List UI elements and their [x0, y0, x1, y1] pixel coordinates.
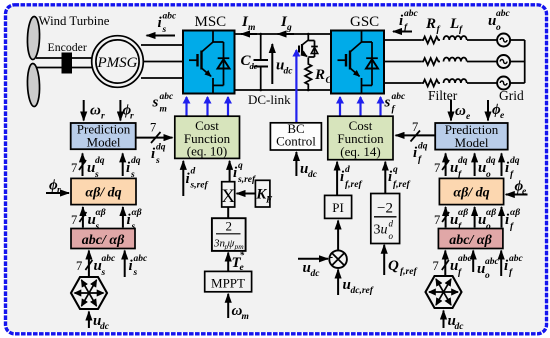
arrow i_f_ab [502, 207, 521, 232]
wire fraction to X [227, 207, 229, 218]
resistor R_f phase c [422, 80, 440, 87]
block multiplier X [221, 182, 235, 207]
arrow K_F to X [237, 193, 256, 195]
wire PMSG to MSC phase c [141, 77, 183, 79]
arrow u_dcref into sum [338, 270, 374, 297]
svg-text:dq: dq [458, 156, 468, 166]
svg-text:s: s [155, 156, 160, 166]
svg-text:abc: abc [404, 9, 419, 19]
arrow Q_fref [384, 245, 417, 277]
svg-text:dc,ref: dc,ref [351, 286, 374, 296]
svg-text:PI: PI [332, 200, 344, 215]
current arrow I_g [278, 14, 295, 34]
shaft [36, 58, 93, 68]
svg-text:abc: abc [163, 12, 178, 22]
svg-text:r: r [130, 112, 134, 122]
svg-text:Model: Model [455, 135, 489, 150]
gate arrows s_m to MSC [187, 97, 229, 116]
svg-text:dq: dq [510, 156, 520, 166]
block torque gain fraction [212, 218, 246, 251]
svg-text:7: 7 [150, 121, 156, 135]
block K_F [255, 180, 273, 207]
svg-text:abc: abc [458, 254, 473, 264]
source grid phase c [497, 77, 510, 90]
svg-text:7: 7 [412, 120, 418, 134]
svg-text:R: R [314, 67, 325, 83]
label L_f [449, 16, 463, 35]
svg-text:ω: ω [455, 103, 466, 119]
arrow u_s_abc [76, 251, 116, 279]
wire sum to PI [337, 221, 339, 251]
svg-text:q: q [393, 165, 398, 175]
arrow i_sref_d [183, 161, 208, 196]
svg-text:αβ: αβ [486, 208, 496, 218]
wire grid bus [510, 40, 525, 83]
sum junction [329, 249, 347, 269]
label s_m_abc [152, 92, 175, 115]
svg-text:m: m [242, 312, 249, 322]
current arrow i_f_abc [393, 9, 419, 33]
svg-text:dc: dc [284, 67, 294, 77]
wire dc-link top rail [235, 33, 332, 35]
arrow u_dc into right hexagon [444, 311, 465, 333]
block PI [325, 195, 352, 218]
svg-text:3: 3 [374, 223, 381, 238]
arrow i_fref_d [337, 162, 362, 195]
vector hexagon left [71, 277, 107, 309]
wire prediction right to cost eq14 [396, 120, 436, 142]
label R_f [425, 16, 441, 35]
inductor L_f phase a [444, 36, 467, 40]
arrow i_sref_q [230, 161, 256, 185]
wire filter to sources [467, 40, 497, 83]
svg-text:Wind Turbine: Wind Turbine [39, 14, 110, 28]
block ab/dq right [439, 178, 503, 204]
svg-text:(eq. 10): (eq. 10) [187, 144, 227, 159]
svg-text:F: F [265, 196, 273, 206]
svg-text:ψ: ψ [228, 238, 235, 250]
arrow i_s_abc in [125, 251, 148, 279]
svg-text:dc: dc [308, 170, 318, 180]
label u_o_abc [488, 9, 511, 33]
svg-text:f,ref: f,ref [393, 180, 410, 190]
svg-text:dc: dc [250, 61, 258, 71]
svg-text:f,ref: f,ref [400, 267, 417, 277]
generator PMSG [92, 36, 144, 88]
svg-text:L: L [449, 16, 459, 32]
svg-text:PMSG: PMSG [97, 55, 138, 71]
block BC Control [270, 121, 321, 150]
inductor L_f phase b [444, 58, 467, 62]
svg-text:u: u [381, 223, 388, 238]
svg-text:dq: dq [156, 143, 166, 153]
arrow omega_r [84, 100, 105, 122]
svg-text:αβ: αβ [510, 208, 520, 218]
svg-text:s: s [152, 95, 159, 111]
arrow omega_e [451, 100, 471, 122]
block MPPT [205, 271, 252, 291]
svg-text:Filter: Filter [428, 88, 458, 103]
svg-text:7: 7 [71, 213, 77, 227]
svg-text:q: q [238, 161, 243, 171]
svg-text:7: 7 [434, 161, 440, 175]
svg-text:dq: dq [486, 156, 496, 166]
arrow u_s_ab [71, 207, 106, 232]
arrow u_dc into sum [298, 259, 328, 279]
label i_f_dq [413, 142, 428, 166]
svg-text:DC-link: DC-link [248, 92, 291, 107]
svg-text:7: 7 [433, 259, 439, 273]
block ab/dq left [71, 178, 136, 204]
converter MSC [183, 31, 235, 94]
svg-text:MSC: MSC [195, 14, 227, 30]
svg-text:Encoder: Encoder [48, 40, 87, 54]
converter GSC [331, 31, 384, 94]
arrow u_o_abc [473, 251, 499, 282]
arrow phi_r into ab/dq [46, 178, 69, 196]
svg-text:m: m [160, 105, 167, 115]
svg-text:o: o [496, 23, 501, 33]
svg-text:Control: Control [276, 133, 316, 148]
arrow i_s_ab [123, 207, 142, 232]
svg-text:abc/ αβ: abc/ αβ [82, 233, 125, 248]
svg-text:pm: pm [234, 242, 245, 251]
svg-text:2: 2 [225, 219, 232, 234]
resistor R_f phase b [422, 58, 440, 65]
junction dots [259, 33, 309, 92]
wire GSC to filter phase c [384, 82, 422, 84]
svg-text:αβ/ dq: αβ/ dq [85, 186, 121, 201]
source grid phase a [497, 34, 510, 47]
block reactive gain fraction [371, 194, 400, 244]
block Cost Function eq14 [328, 116, 393, 160]
svg-text:dq: dq [95, 156, 105, 166]
current arrow I_m [241, 14, 257, 34]
arrow T_e to fraction [228, 250, 244, 273]
svg-text:abc: abc [102, 254, 117, 264]
svg-text:s: s [101, 268, 106, 278]
svg-text:s: s [162, 25, 167, 35]
svg-text:Q: Q [388, 258, 399, 274]
arrow u_f_dq [434, 153, 468, 180]
inductor L_f phase c [444, 79, 467, 83]
arrow i_s_dq in [123, 153, 141, 180]
arrow u_f_abc [433, 251, 473, 279]
svg-text:abc: abc [392, 92, 407, 102]
svg-text:s,ref: s,ref [237, 175, 256, 185]
wire GSC to filter phase a [384, 39, 422, 41]
chopper transistor [299, 34, 318, 62]
svg-text:dc: dc [455, 322, 465, 332]
svg-text:Grid: Grid [499, 88, 524, 103]
svg-text:αβ: αβ [132, 208, 142, 218]
label i_s_dq [151, 143, 166, 167]
svg-text:f,ref: f,ref [345, 180, 362, 190]
svg-text:(eq. 14): (eq. 14) [340, 144, 380, 159]
arrow phi_e [488, 100, 505, 121]
gate arrows s_f to GSC [340, 97, 381, 116]
svg-text:g: g [286, 23, 292, 33]
svg-text:Model: Model [87, 135, 121, 150]
arrow omega_m [228, 294, 249, 322]
svg-text:abc: abc [496, 9, 511, 19]
arrow i_f_dq in [502, 153, 520, 180]
resistor R_C [305, 62, 332, 90]
block Prediction Model right [435, 122, 508, 150]
block abc/ab right [438, 229, 503, 249]
svg-text:o: o [485, 271, 490, 281]
svg-text:d: d [389, 219, 394, 229]
wind turbine [27, 16, 40, 106]
svg-text:r: r [101, 112, 105, 122]
svg-text:d: d [191, 167, 196, 177]
arrow i_f_abc in [501, 251, 523, 279]
svg-text:MPPT: MPPT [211, 275, 245, 290]
svg-text:abc: abc [160, 92, 175, 102]
arrow u_f_ab [434, 207, 468, 232]
arrow phi_r [120, 100, 134, 122]
wire PMSG to MSC phase a [141, 44, 183, 46]
svg-text:abc: abc [509, 254, 524, 264]
svg-text:αβ/ dq: αβ/ dq [453, 186, 489, 201]
svg-text:7: 7 [71, 161, 77, 175]
wire dc-link bottom rail [235, 89, 332, 91]
svg-text:αβ: αβ [96, 208, 106, 218]
encoder [62, 53, 73, 74]
current arrow i_s_abc [147, 12, 178, 36]
svg-text:abc: abc [485, 257, 500, 267]
svg-text:-: - [329, 249, 333, 264]
svg-text:r: r [57, 186, 61, 196]
svg-text:αβ: αβ [458, 208, 468, 218]
svg-text:o: o [389, 231, 394, 241]
svg-text:ω: ω [90, 103, 101, 119]
svg-text:abc: abc [134, 254, 149, 264]
svg-text:m: m [248, 23, 255, 33]
voltage arrow u_dc [272, 44, 293, 84]
svg-text:7: 7 [434, 213, 440, 227]
resistor R_f phase a [422, 37, 440, 44]
svg-text:dq: dq [131, 156, 141, 166]
svg-text:dc: dc [311, 269, 321, 279]
vector hexagon right [426, 276, 462, 308]
block Cost Function eq10 [175, 116, 240, 159]
label s_f_abc [384, 92, 407, 115]
svg-text:*: * [240, 250, 245, 261]
svg-text:R: R [425, 16, 436, 32]
svg-text:d: d [345, 165, 350, 175]
svg-text:7: 7 [76, 259, 82, 273]
arrow u_dc into BC [296, 152, 317, 180]
wire prediction to cost eq10 [136, 121, 173, 144]
svg-text:s: s [133, 268, 138, 278]
wire PMSG to MSC phase b [143, 61, 183, 63]
arrow u_o_dq [475, 153, 496, 180]
arrow u_dc into left hexagon [89, 312, 110, 333]
block Prediction Model left [71, 122, 136, 150]
arrow phi_e into ab/dq [506, 179, 528, 198]
arrow u_o_ab [475, 207, 497, 232]
wire GSC to filter phase b [384, 61, 422, 63]
svg-text:s,ref: s,ref [190, 181, 209, 191]
arrow i_fref_q [385, 162, 410, 193]
svg-text:dc: dc [100, 322, 110, 332]
capacitor C_dc [241, 34, 269, 90]
svg-text:abc/ αβ: abc/ αβ [449, 233, 492, 248]
svg-text:X: X [221, 186, 235, 207]
arrow u_s_dq [71, 153, 105, 180]
svg-text:GSC: GSC [350, 14, 379, 30]
svg-text:dq: dq [418, 142, 428, 152]
gate wire BC to chopper [295, 50, 297, 122]
block abc/ab left [71, 229, 135, 249]
svg-text:−2: −2 [377, 201, 393, 217]
source grid phase b [497, 55, 510, 68]
svg-text:s: s [384, 95, 391, 111]
